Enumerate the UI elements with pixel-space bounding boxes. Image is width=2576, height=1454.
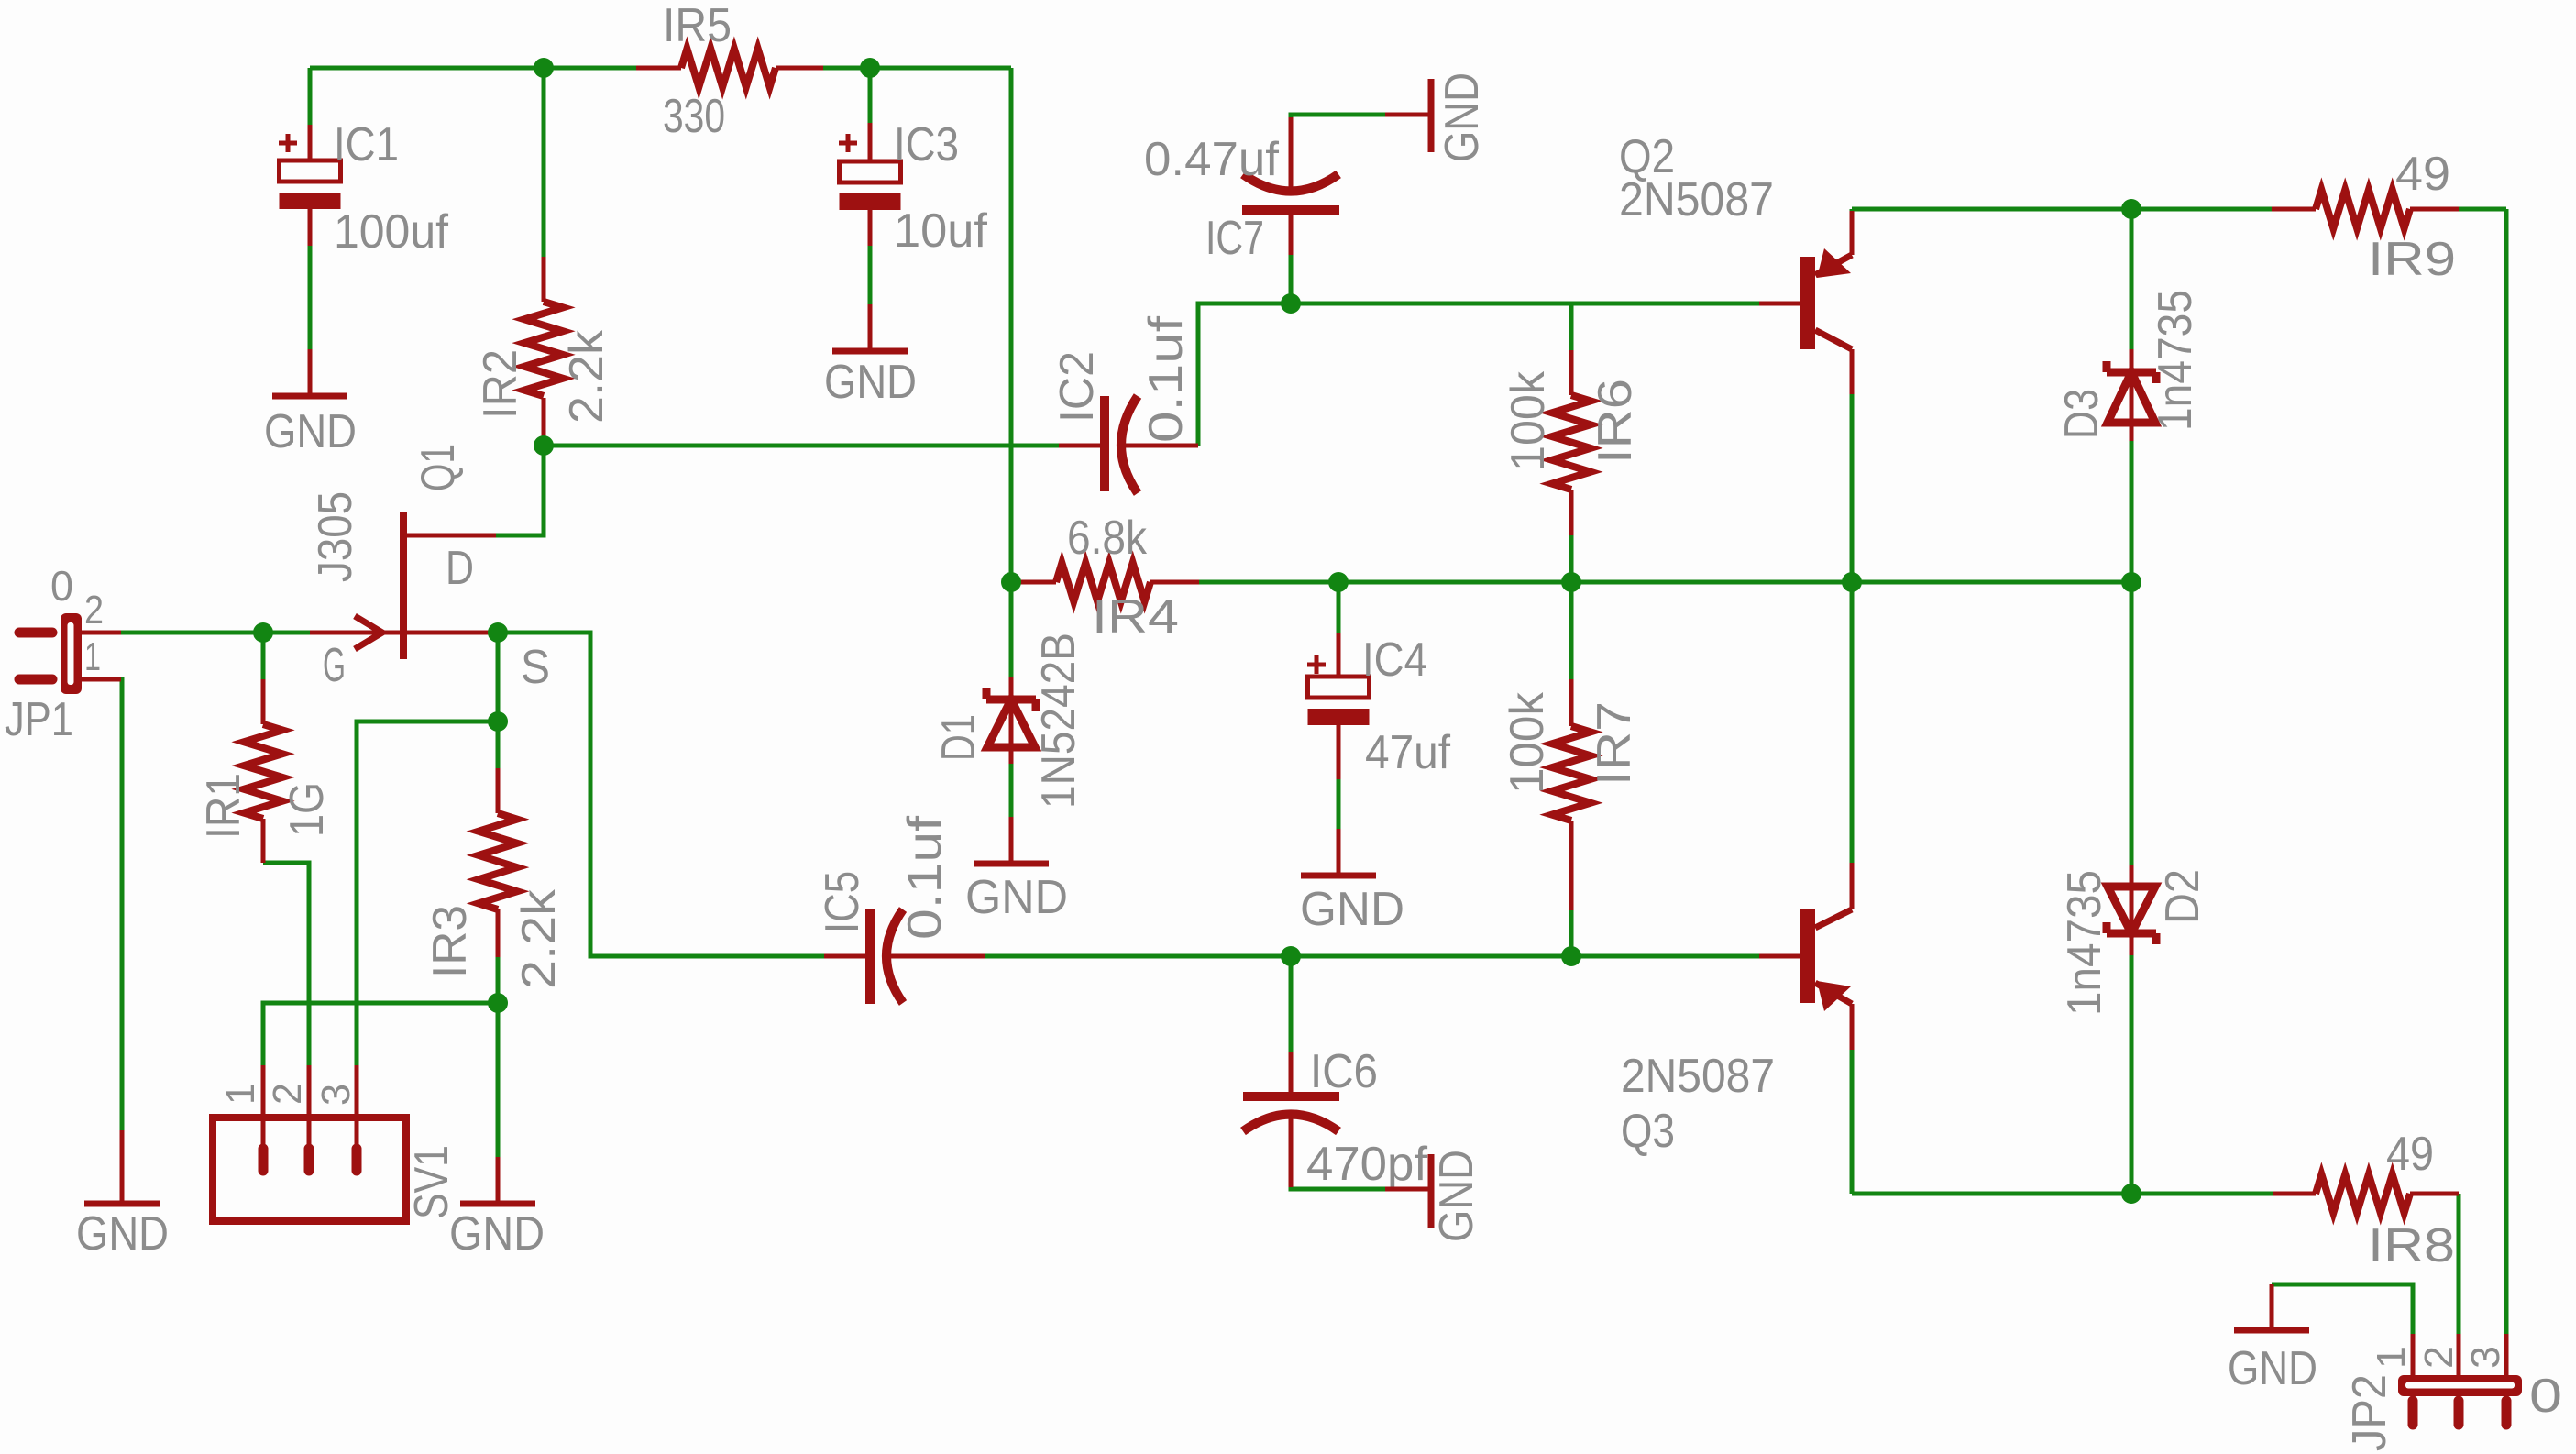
svg-text:IR6: IR6 [1589, 379, 1642, 464]
svg-text:GND: GND [824, 356, 917, 409]
svg-text:IC2: IC2 [1051, 351, 1104, 423]
svg-text:0: 0 [50, 562, 73, 610]
ground GND under IC1 [308, 349, 313, 393]
wire Q3 emitter net [1850, 1050, 1855, 1194]
transistor Q2 2N5087 PNP [1800, 257, 1815, 349]
svg-text:GND: GND [449, 1207, 545, 1261]
wire emitter rail y=228 [1852, 207, 2272, 212]
wire IR4 row middle [1199, 580, 2131, 585]
junction node 2 [860, 58, 880, 78]
ground GND at IC7 [1385, 113, 1429, 117]
svg-text:IR3: IR3 [424, 905, 477, 978]
junction node 10 [1328, 572, 1349, 592]
svg-text:6.8k: 6.8k [1067, 512, 1148, 565]
wire D3 bottom to IR4 row [2130, 441, 2134, 582]
wire IC2 row from IR2 junction [544, 444, 1059, 448]
label IC4 plus [1307, 663, 1326, 667]
svg-text:IR5: IR5 [663, 0, 732, 52]
ground GND under IC4 [1337, 829, 1341, 873]
transistor Q1 J305 JFET [406, 534, 496, 538]
wire IC6 bottom to GND [1291, 1187, 1385, 1189]
wire Q2 base row [1291, 302, 1759, 306]
label IC3 plus [839, 141, 857, 146]
svg-text:GND: GND [1430, 1150, 1483, 1242]
ground GND under JP1 [120, 1130, 125, 1201]
wire D1 bottom net [1009, 764, 1014, 817]
svg-text:Q1: Q1 [412, 444, 465, 491]
resistor IR7 [1569, 679, 1574, 726]
wire IR8 to JP2 pin2 [2457, 1194, 2461, 1334]
wire IC4 top net [1337, 582, 1341, 633]
wire IC6 top net [1289, 956, 1294, 1052]
resistor IR9 [2272, 207, 2316, 212]
wire top rail from IC1 to IR5 [310, 66, 636, 71]
ground GND under D1 [1009, 817, 1014, 861]
transistor Q3 2N5087 PNP [1800, 909, 1815, 1003]
wire D1 top net [1009, 582, 1014, 677]
svg-text:D: D [446, 542, 474, 595]
diode D2 1n4735 zener [2130, 865, 2134, 955]
svg-text:470pf: 470pf [1306, 1138, 1428, 1191]
svg-text:49: 49 [2386, 1128, 2434, 1181]
wire IR6 top net [1569, 303, 1574, 350]
svg-text:JP1: JP1 [5, 693, 73, 746]
wire vertical from top rail down x=1103 [1009, 68, 1014, 582]
svg-text:GND: GND [76, 1207, 169, 1261]
svg-text:100uf: 100uf [334, 205, 449, 259]
wire IC1 top pin net [308, 68, 313, 125]
svg-text:1n4735: 1n4735 [2149, 290, 2202, 431]
svg-text:GND: GND [264, 405, 357, 458]
svg-text:0.1uf: 0.1uf [1139, 315, 1193, 443]
junction node 12 [1842, 572, 1862, 592]
capacitor IC2 0.1uf [1059, 444, 1103, 448]
svg-text:IR2: IR2 [474, 349, 527, 419]
junction node 17 [2121, 1184, 2141, 1204]
ground GND at IC6 [1385, 1187, 1429, 1192]
svg-text:D1: D1 [932, 714, 985, 761]
svg-text:1: 1 [218, 1083, 263, 1105]
resistor IR3 [496, 768, 501, 813]
wire IC7 top to GND [1291, 115, 1385, 117]
svg-text:1n4735: 1n4735 [2058, 870, 2111, 1016]
junction node 9 [1001, 572, 1021, 592]
junction node 3 [534, 435, 554, 456]
wire D3 junction down to D2 [2130, 582, 2134, 865]
resistor IR4 [1011, 580, 1056, 585]
wire Q3 emitter row to IR8 [1852, 1192, 2273, 1196]
resistor IR6 [1569, 350, 1574, 395]
wire bottom row to SV1 pin1 [263, 1003, 498, 1065]
wire top rail IR5 to IC3 junction [823, 66, 1011, 71]
svg-text:IC5: IC5 [816, 871, 869, 933]
wire Q2 collector to IR4 row [1850, 394, 1855, 582]
wire IR3 top net [496, 721, 501, 768]
svg-text:0.47uf: 0.47uf [1144, 133, 1280, 186]
capacitor IC1 100uf [308, 125, 313, 160]
svg-text:1: 1 [84, 634, 101, 679]
diode D1 1N5242B zener [1009, 677, 1014, 764]
svg-text:2: 2 [2416, 1346, 2461, 1369]
svg-text:JP2: JP2 [2343, 1374, 2396, 1451]
svg-text:IR7: IR7 [1588, 701, 1641, 786]
svg-text:100k: 100k [1501, 691, 1554, 794]
svg-text:IC6: IC6 [1310, 1045, 1378, 1098]
wire IR7 top net [1569, 582, 1574, 679]
wire rail IR9 to right edge [2459, 207, 2506, 212]
junction node 1 [534, 58, 554, 78]
svg-text:IC3: IC3 [894, 118, 959, 171]
connector JP2 [2411, 1334, 2416, 1375]
svg-text:GND: GND [1436, 72, 1489, 162]
wire IR1 bottom jog to SV1 pin2 [263, 863, 309, 1065]
wire Q2 emitter top net [1850, 209, 1855, 211]
svg-text:0: 0 [2529, 1370, 2562, 1423]
svg-text:D3: D3 [2055, 389, 2108, 439]
wire D2 bottom to emitter row [2130, 955, 2134, 1194]
wire IC4 bottom net [1337, 779, 1341, 829]
junction node 14 [2121, 572, 2141, 592]
ground GND under IC3 [868, 304, 873, 348]
capacitor IC3 10uf [868, 123, 873, 161]
svg-text:GND: GND [1300, 883, 1404, 936]
svg-text:1N5242B: 1N5242B [1032, 633, 1085, 809]
wire IC7 bottom net [1289, 255, 1294, 303]
svg-text:2.2k: 2.2k [512, 888, 566, 989]
junction node 8 [1281, 293, 1301, 314]
wire S down to IR3 junction [496, 633, 501, 721]
svg-text:G: G [323, 639, 346, 692]
wire IC3 top net [868, 68, 873, 123]
resistor IR2 [542, 257, 546, 302]
svg-text:47uf: 47uf [1365, 726, 1450, 779]
connector SV1 [213, 1118, 406, 1221]
svg-text:D2: D2 [2156, 869, 2209, 924]
junction node 13 [2121, 199, 2141, 219]
wire S to IC5 corner [498, 633, 824, 956]
ground GND right of SV1 [496, 1157, 501, 1201]
wire IR6 bottom net [1569, 535, 1574, 582]
svg-text:GND: GND [965, 871, 1068, 924]
svg-text:IR8: IR8 [2368, 1219, 2455, 1272]
diode D3 1n4735 zener [2130, 349, 2134, 441]
svg-text:1: 1 [2369, 1346, 2414, 1369]
resistor IR8 [2273, 1192, 2316, 1196]
svg-text:0.1uf: 0.1uf [898, 815, 952, 940]
junction node 4 [253, 622, 273, 643]
svg-text:IR1: IR1 [197, 773, 250, 839]
svg-text:Q3: Q3 [1621, 1105, 1675, 1158]
junction node 7 [488, 993, 508, 1013]
wire IC5 right to Q3 base [985, 954, 1759, 959]
ground GND near JP2 [2270, 1284, 2274, 1327]
wire IR7 bottom net [1569, 910, 1574, 956]
wire IC1 bottom to GND [308, 246, 313, 349]
wire G row JP1 to gate [121, 631, 310, 635]
svg-text:IC4: IC4 [1362, 633, 1427, 687]
junction node 5 [488, 622, 508, 643]
wire IC2 right pin up to base row [1198, 303, 1291, 446]
wire GND net below IR3 [496, 1003, 501, 1157]
wire IC3 bottom to GND [868, 246, 873, 304]
svg-text:2N5087: 2N5087 [1619, 173, 1774, 226]
wire right edge vertical [2504, 209, 2509, 1334]
wire Q1 drain jog [496, 446, 544, 535]
svg-text:S: S [521, 641, 550, 694]
wire IR2 top net [542, 68, 546, 257]
wire Q3 collector net [1850, 582, 1855, 863]
svg-text:IR4: IR4 [1092, 590, 1179, 644]
wire JP1 pin1 down [121, 679, 122, 1130]
capacitor IC6 470pf [1289, 1052, 1294, 1096]
capacitor IC5 0.1uf [824, 954, 868, 959]
svg-text:2: 2 [265, 1083, 310, 1105]
label IC1 plus [279, 141, 297, 146]
junction node 11 [1561, 572, 1581, 592]
wire D3 top net [2130, 209, 2134, 349]
capacitor IC7 0.47uf [1289, 117, 1294, 192]
svg-text:2: 2 [84, 588, 104, 633]
svg-text:IC7: IC7 [1205, 212, 1264, 265]
wire IR3 junction to SV1 pin3 [357, 721, 498, 1065]
svg-text:3: 3 [2463, 1346, 2508, 1369]
resistor IR1 [261, 679, 266, 724]
junction node 6 [488, 711, 508, 732]
svg-text:2.2k: 2.2k [560, 329, 613, 424]
wire IR1 top net [261, 633, 266, 679]
junction node 16 [1561, 946, 1581, 966]
svg-text:330: 330 [663, 90, 725, 143]
wire IR3 bottom net [496, 957, 501, 1003]
capacitor IC4 47uf [1337, 633, 1341, 677]
svg-text:IR9: IR9 [2368, 233, 2456, 286]
connector JP1 [19, 628, 52, 638]
svg-text:GND: GND [2228, 1342, 2317, 1395]
svg-text:100k: 100k [1502, 370, 1555, 471]
junction node 15 [1281, 946, 1301, 966]
svg-text:2N5087: 2N5087 [1621, 1050, 1775, 1103]
svg-text:10uf: 10uf [894, 204, 988, 258]
svg-text:3: 3 [314, 1084, 358, 1106]
resistor IR5 [636, 66, 681, 71]
wire JP2 pin1 to GND corner [2272, 1284, 2413, 1334]
svg-text:1G: 1G [281, 782, 334, 837]
svg-text:IC1: IC1 [334, 118, 399, 171]
svg-text:49: 49 [2395, 148, 2450, 201]
svg-text:J305: J305 [309, 491, 362, 582]
